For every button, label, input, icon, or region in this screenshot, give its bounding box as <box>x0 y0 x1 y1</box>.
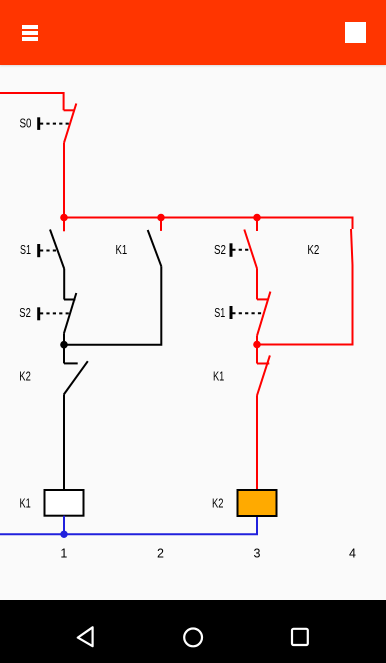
wire: energized bus rail with drop to col4 <box>64 218 353 230</box>
coil K2 (energized) <box>238 490 277 516</box>
svg-text:S1: S1 <box>214 306 225 320</box>
wire: S0 bottom lead to bus <box>63 143 65 218</box>
pushbutton S0 (NC contact, closed) <box>39 104 77 143</box>
app bar <box>0 0 386 65</box>
svg-text:K1: K1 <box>213 370 224 384</box>
wire: col3 S1 to junction <box>256 336 258 345</box>
wire: neutral bus N <box>0 516 257 534</box>
node: bus junction col3 <box>253 214 261 222</box>
svg-text:S2: S2 <box>214 243 226 257</box>
node: junction col3 <box>253 341 261 349</box>
wire: K1 coil to neutral bus <box>63 516 65 535</box>
svg-text:S2: S2 <box>19 306 31 320</box>
switch S2 (NC contact, closed) <box>39 293 77 333</box>
wire: K1 contact to K2 coil <box>256 396 258 491</box>
wire: L1 feed from left edge to S0 <box>0 93 64 110</box>
svg-text:K2: K2 <box>307 243 319 257</box>
wire: K2 contact to K1 coil <box>63 395 65 491</box>
nav home icon <box>184 629 202 647</box>
svg-text:1: 1 <box>60 547 67 561</box>
nav bar <box>0 600 386 663</box>
node: bus junction col1 <box>60 214 68 222</box>
svg-text:K2: K2 <box>212 496 224 510</box>
nav recents icon <box>292 629 308 645</box>
wire: K1 contact down and left to junction col1 <box>63 266 161 344</box>
node: junction col1 <box>60 341 68 349</box>
svg-text:K1: K1 <box>116 243 128 257</box>
node: bus junction col2 <box>157 214 165 222</box>
svg-text:4: 4 <box>349 547 356 561</box>
switch S1 (NC contact, closed, col3) <box>231 292 270 336</box>
svg-text:S0: S0 <box>20 116 32 130</box>
svg-text:K2: K2 <box>19 370 31 384</box>
nav back icon <box>78 627 93 646</box>
coil K1 <box>45 490 84 516</box>
switch S2 (NO contact, open, col3) <box>231 230 257 269</box>
contact K2 (NO, closed, holding contact col4) <box>351 229 353 265</box>
wire: col3 stub below bus <box>256 218 258 232</box>
switch S1 (NO contact, open) <box>39 230 65 270</box>
node: neutral junction col1 <box>60 531 67 538</box>
wire: col1 S2 to junction row <box>63 333 65 345</box>
wire: col3 S2 to S1 <box>256 269 258 300</box>
wire: col4 down and left to junction col3 <box>256 265 353 345</box>
menu icon <box>22 25 38 41</box>
svg-text:2: 2 <box>157 547 164 561</box>
contact K1 (NC, closed, col3) <box>257 345 270 396</box>
svg-text:K1: K1 <box>20 496 31 510</box>
svg-text:3: 3 <box>254 547 261 561</box>
contact K2 (NC, open, col1) <box>64 345 88 395</box>
wire: col1 S1 to S2 <box>63 269 65 300</box>
svg-text:S1: S1 <box>20 243 31 257</box>
stop button icon <box>345 22 366 43</box>
wire: col1 stub below bus <box>63 218 65 232</box>
wire: col2 stub below bus <box>160 218 162 231</box>
contact K1 (NO, open, holding contact col2) <box>148 230 162 266</box>
